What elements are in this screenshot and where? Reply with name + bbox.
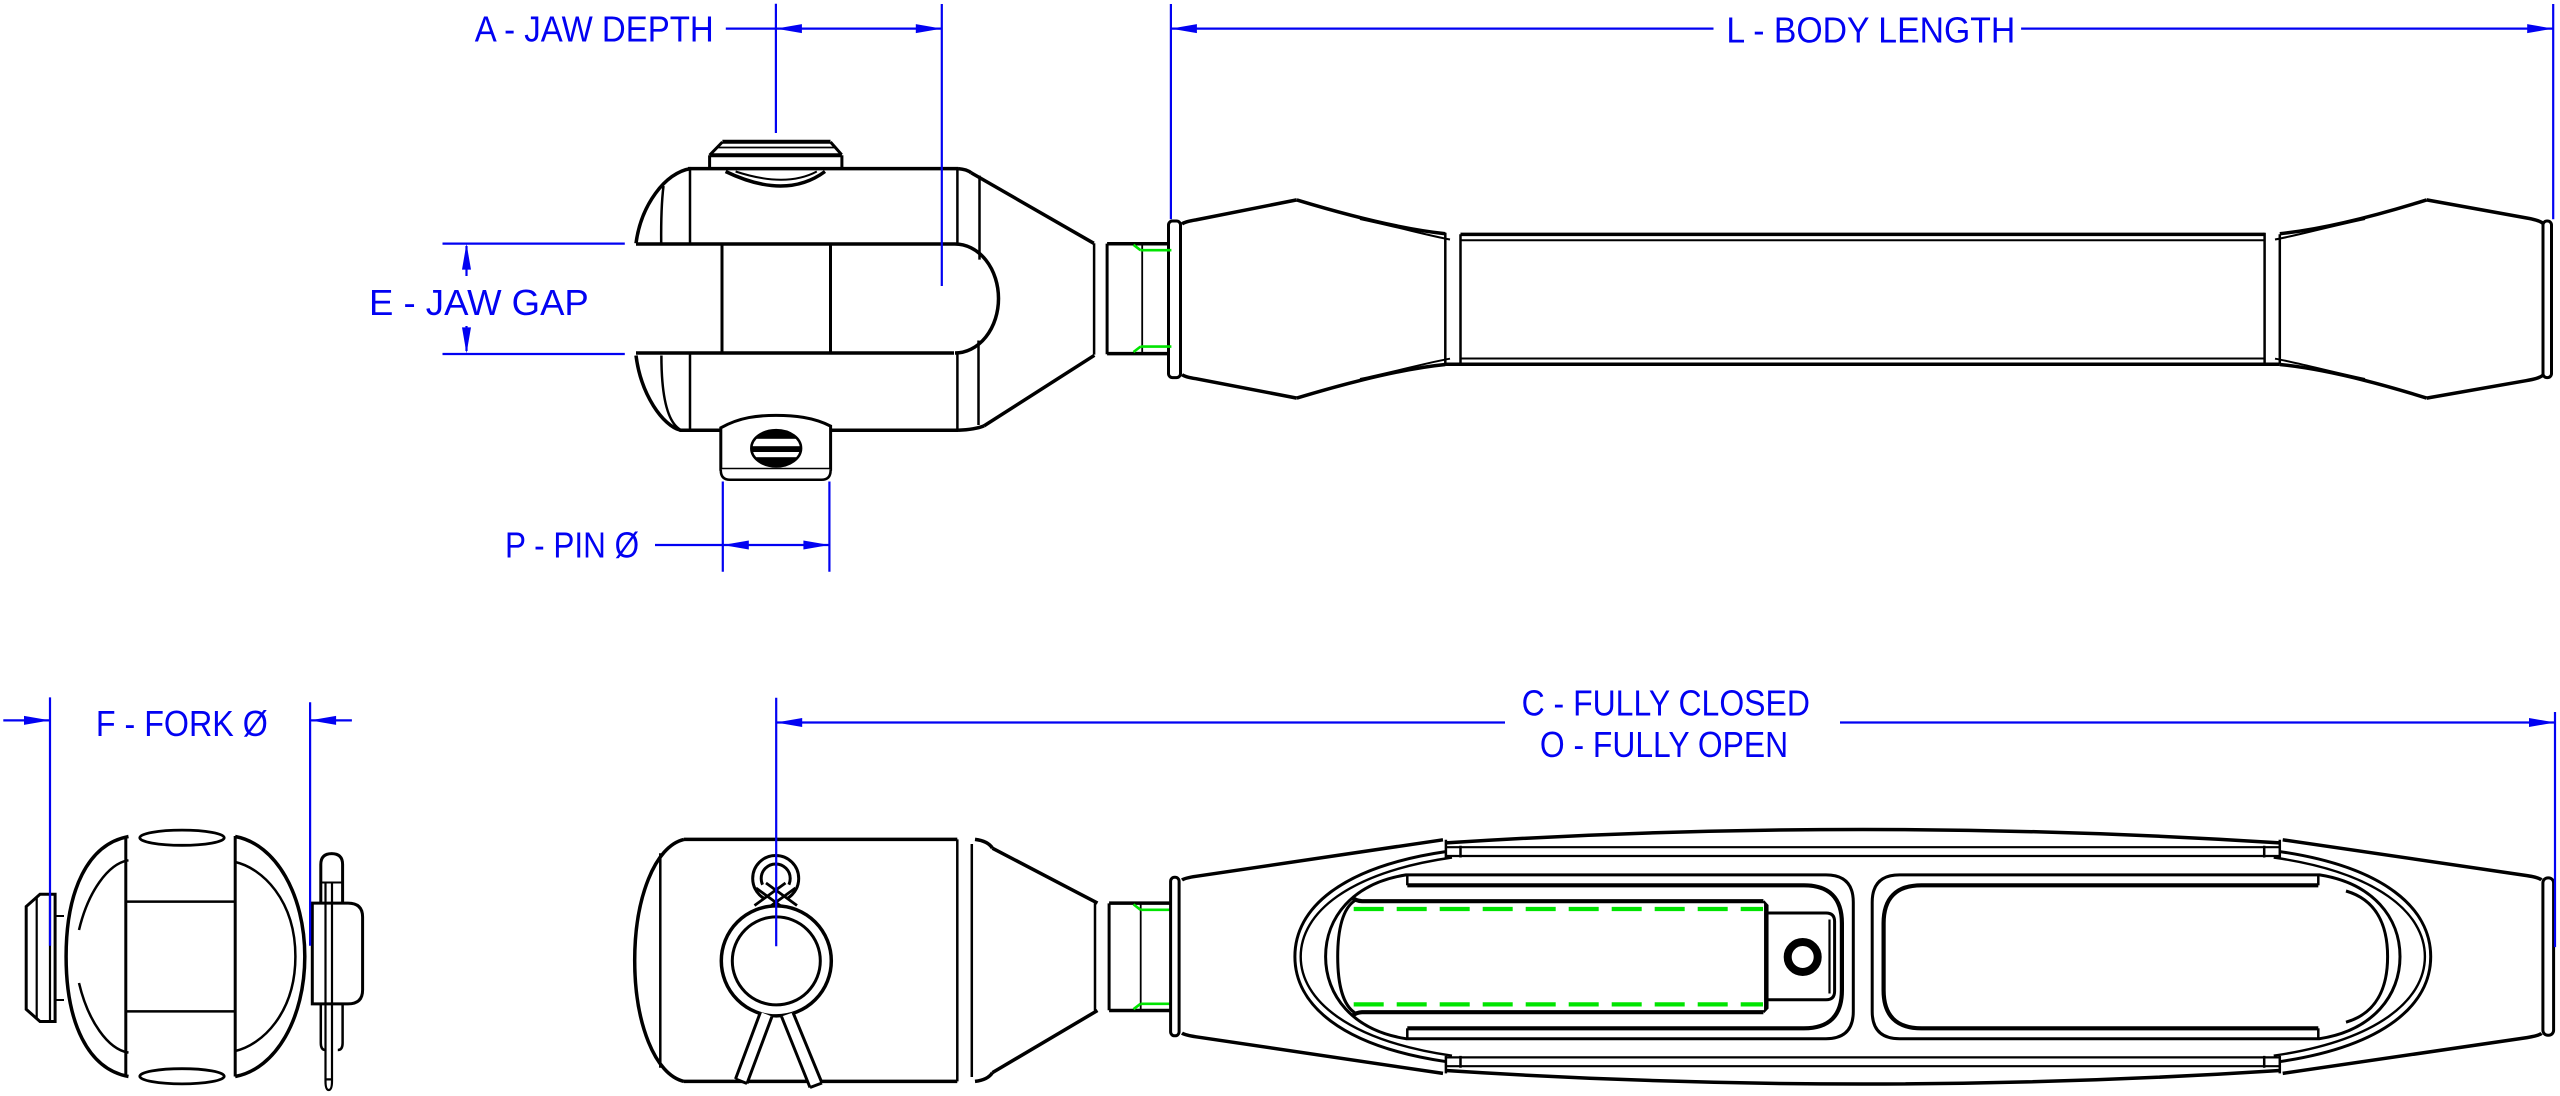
pin head line 2 [36, 898, 38, 1019]
svg-text:A - JAW DEPTH: A - JAW DEPTH [475, 9, 714, 50]
body left step line 2 [1459, 234, 1462, 364]
body2 bar bottom line a [1447, 1065, 2280, 1067]
pin head inner line [49, 894, 51, 1021]
dim L line left [1171, 28, 1714, 30]
dim L ext line 2 [2552, 4, 2554, 219]
body2 bar top line b [1446, 855, 2280, 857]
body2 bar bottom outer arc [1446, 1071, 2280, 1085]
prong upper line [126, 900, 235, 903]
jaw2 left round end [635, 839, 684, 1081]
dim A line [776, 28, 942, 30]
dim CO line right [1840, 721, 2555, 723]
arrow L right [2527, 24, 2553, 33]
jaw slot end arc [955, 244, 999, 353]
window2 bottom jog [2317, 1028, 2320, 1038]
transition U left inner [1301, 858, 1452, 1056]
prong lower line [126, 1010, 235, 1013]
dim E ext bottom [443, 353, 625, 355]
dim L line right [2021, 28, 2553, 30]
screw top edge [1353, 898, 1764, 901]
pin head plate [26, 894, 55, 1021]
dim E arrow tails [465, 246, 467, 351]
dim P leader [655, 544, 723, 546]
clip leg tip [326, 1079, 333, 1090]
fork right bulge [235, 837, 305, 1077]
pin tail cap [312, 903, 362, 1004]
pin P1 head right chamfer [831, 142, 842, 155]
body left end face [1169, 221, 1181, 378]
pin P1 head seat arc outer [726, 172, 825, 187]
pin P1 lower boss [721, 415, 831, 469]
cone end edge left [1093, 243, 1096, 354]
body bar bottom inner line [1461, 358, 2265, 360]
stud thread bottom edge [1107, 352, 1168, 356]
jaw right face bottom line [956, 353, 959, 430]
clip2 cross strip A [756, 883, 797, 911]
jaw gap bottom edge [636, 351, 954, 355]
jaw bottom-left tangent line [689, 353, 692, 430]
jaw2 cone bottom taper [992, 1011, 1097, 1073]
screw tab inner edge [1828, 920, 1830, 994]
pin P1 slot end rim [751, 430, 801, 466]
fork left chamfer arc bottom [79, 983, 129, 1053]
body right step line 1 [2263, 233, 2266, 366]
thread dash bottom [1354, 1002, 1763, 1006]
slot1 top jog [1406, 875, 1409, 885]
arrow E up [462, 244, 471, 270]
jaw bottom-left corner inner edge [661, 356, 681, 431]
arrow F left [24, 716, 50, 725]
body left step line 1 [1444, 233, 1447, 366]
pin2 head chamfer circle [732, 917, 820, 1005]
body left transition curve top inner [1360, 219, 1450, 240]
transition U right outer [2279, 852, 2431, 1062]
body2 right cone top edge [2283, 840, 2542, 880]
jaw2 cone end edge left [1094, 903, 1097, 1010]
dim CO ext line 2 [2554, 712, 2556, 947]
arrow P left [723, 541, 749, 550]
jaw top-left tangent line [689, 169, 692, 244]
jaw top-left corner arc [636, 169, 691, 244]
transition U right inner [2274, 858, 2425, 1056]
fork left bulge [66, 837, 128, 1077]
pin P1 head right side [840, 155, 843, 170]
pin shank bottom connector [55, 997, 64, 1003]
jaw top-left corner inner edge [661, 186, 663, 243]
cotter hole [1788, 942, 1818, 972]
jaw2 cone end edge right [1108, 903, 1111, 1010]
arrow A left [776, 24, 802, 33]
pin P1 slot groove floor [748, 446, 806, 452]
screw bottom edge [1353, 1012, 1764, 1015]
body2 right cone bottom edge [2283, 1033, 2542, 1073]
stud2 top edge [1109, 901, 1170, 905]
svg-text:L - BODY LENGTH: L - BODY LENGTH [1726, 10, 2015, 51]
green thread marks top view [1134, 245, 1172, 352]
jaw gap top edge [636, 242, 955, 246]
body2 left cone top edge [1182, 840, 1443, 880]
arrow F right [310, 716, 336, 725]
pin P1 head left chamfer [710, 142, 723, 155]
body right cone bottom edge [2427, 375, 2543, 398]
body right transition curve bottom inner [2275, 359, 2365, 379]
arrow L left [1171, 24, 1197, 33]
svg-text:E - JAW GAP: E - JAW GAP [369, 282, 589, 323]
body left cone top edge [1182, 200, 1297, 224]
jaw cone tangent top line [978, 176, 981, 260]
screw thread dashed lines [1354, 909, 1763, 1004]
body2 bar bottom line b [1446, 1056, 2280, 1058]
green thread marks bottom view [1134, 904, 1171, 1009]
body2 bar top line a [1447, 846, 2280, 848]
pin2 head outer circle [721, 906, 831, 1016]
body right step line 2 [2279, 234, 2282, 364]
body bar top inner line [1461, 239, 2265, 241]
jaw bottom-left corner arc [636, 356, 680, 431]
pin P1 right edge in gap [829, 244, 832, 353]
jaw2 cone bottom corner [975, 1073, 992, 1082]
pin P1 lower plate [721, 469, 831, 479]
jaw cone bottom taper [984, 355, 1094, 426]
clip2 ring outer [753, 856, 799, 902]
prong bottom tip oval [140, 1069, 224, 1084]
jaw cone top corner [958, 169, 971, 173]
thread2 mark top [1134, 904, 1171, 909]
prong left edge [124, 836, 127, 1077]
dim L ext line 1 [1170, 4, 1172, 219]
dim P ext line 2 [828, 482, 830, 572]
clip2 cross strip B edges [755, 883, 796, 911]
slot1 bottom jog [1406, 1028, 1409, 1038]
stud2 runout line [1140, 903, 1142, 1010]
jaw right face top line [956, 169, 959, 244]
jaw cone bottom corner [958, 426, 984, 430]
body bar top edge [1461, 233, 2265, 237]
pin shank top connector [55, 913, 64, 919]
thread dash top [1354, 907, 1763, 911]
jaw cone top taper [971, 173, 1094, 243]
body2 left cone bottom edge [1182, 1033, 1443, 1073]
dim F ext line 2 [309, 702, 311, 945]
pin P1 screw slot end [748, 430, 806, 466]
body2 bar top outer arc [1446, 829, 2280, 842]
prong top tip oval [140, 830, 224, 845]
dim F line right [310, 719, 352, 721]
clip2 left leg [736, 1012, 773, 1084]
dim E ext top [443, 243, 625, 245]
window2 top jog [2317, 875, 2320, 885]
body right cone top edge [2427, 200, 2543, 224]
stud thread top edge [1107, 242, 1168, 246]
body left transition curve top [1297, 200, 1446, 234]
screw tab outline [1767, 913, 1834, 1000]
jaw2 bottom edge [684, 1080, 957, 1084]
svg-text:F - FORK Ø: F - FORK Ø [96, 703, 268, 744]
body right transition curve bottom [2280, 365, 2427, 399]
body left transition curve bottom [1297, 365, 1446, 399]
thread mark top [1134, 245, 1172, 250]
dim P ext line 1 [722, 482, 724, 572]
clip2 cross strip B [755, 883, 796, 911]
clip2 cross strip A edges [756, 883, 797, 911]
jaw top edge [688, 167, 958, 171]
fork left chamfer arc top [79, 860, 129, 930]
dim A ext line 2 [941, 4, 943, 286]
arrow CO right [2529, 718, 2555, 727]
screw end face [1763, 901, 1767, 1012]
body2 left step line 1 [1445, 840, 1448, 1074]
dim CO line left [776, 721, 1505, 723]
jaw cone tangent bottom line [977, 341, 980, 426]
pin P1 head top [722, 140, 830, 144]
dim CO ext line 1 [775, 698, 777, 947]
window2 right inner chamfer U [2346, 891, 2388, 1022]
cone end edge right [1106, 244, 1109, 355]
pin P1 head seat arc inner [736, 172, 817, 180]
cotter ring pin (R-clip) [753, 856, 799, 902]
jaw2 cone top taper [992, 848, 1097, 903]
clip loop crossbar [322, 882, 343, 884]
transition U left outer [1295, 852, 1447, 1062]
clip loop outer [321, 854, 343, 904]
body right transition curve top [2280, 200, 2427, 234]
pin P1 left edge in gap [721, 244, 724, 353]
clip2 left leg edges [736, 1012, 773, 1084]
body right end face [2543, 221, 2552, 378]
body left cone bottom edge [1182, 375, 1297, 399]
pin P1 head left side [708, 155, 711, 170]
jaw2 top edge [684, 838, 957, 842]
svg-text:P - PIN Ø: P - PIN Ø [505, 525, 639, 566]
thread2 mark bottom [1134, 1004, 1171, 1009]
arrow E down [462, 327, 471, 353]
jaw2 left tangent line [659, 853, 662, 1067]
window2 inner outline [1884, 885, 2319, 1028]
body2 left end face [1171, 877, 1180, 1036]
screw left end U [1338, 901, 1355, 1013]
pin P1 head slot line [718, 147, 834, 149]
body2 right step line 1 [2279, 840, 2282, 1074]
slot1 inner outline [1407, 885, 1842, 1028]
jaw2 cone tangent line [971, 844, 974, 1077]
jaw2 right face line [956, 839, 959, 1081]
stud2 bottom edge [1109, 1009, 1170, 1013]
body2 right end face [2543, 878, 2554, 1035]
dim A ext line 1 [775, 4, 777, 133]
thread mark bottom [1134, 347, 1172, 352]
slot1 outer outline with left U end [1326, 875, 1854, 1039]
dim P line [723, 544, 830, 546]
body2 left step line 2 [1459, 846, 1462, 1068]
clip2 right leg [782, 1013, 823, 1088]
body right transition curve top inner [2275, 219, 2365, 240]
clip2 ring inner [761, 864, 790, 893]
svg-text:C - FULLY CLOSED: C - FULLY CLOSED [1522, 683, 1810, 724]
body left transition curve bottom inner [1360, 359, 1450, 379]
dim A leader [726, 28, 776, 30]
clip leg inner lines [326, 883, 333, 1082]
pin P1 slot end fill [751, 430, 801, 466]
clip2 right leg edges [782, 1013, 823, 1088]
window2 outer outline with right U end [1872, 875, 2400, 1039]
fork right inner chamfer arc [235, 862, 295, 1051]
arrow CO left [776, 718, 802, 727]
arrow A right [916, 24, 942, 33]
pin P1 slot groove [748, 439, 806, 457]
clip leg outer below cap [321, 1004, 343, 1050]
svg-text:O - FULLY OPEN: O - FULLY OPEN [1540, 724, 1788, 765]
dim F line left [3, 719, 50, 721]
body2 right step line 2 [2263, 846, 2266, 1068]
stud thread runout line [1141, 244, 1143, 353]
dim F ext line 1 [49, 697, 51, 945]
jaw2 cone top corner [975, 839, 992, 848]
prong right edge [234, 836, 237, 1077]
pin P1 head band [710, 153, 842, 157]
arrow P right [803, 541, 829, 550]
jaw bottom edge [680, 429, 959, 433]
body bar bottom edge [1445, 363, 2280, 367]
